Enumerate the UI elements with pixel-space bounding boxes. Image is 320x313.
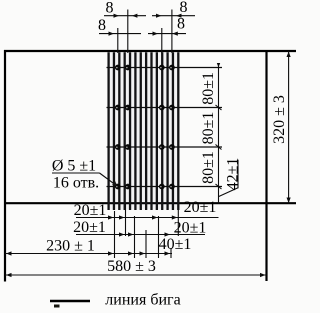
- hole 7 (o5, row 2 col 3): [159, 105, 165, 111]
- 80-chain tick: [216, 145, 222, 150]
- dimension line 80-chain (vertical): [218, 66, 220, 204]
- svg-text:20±1: 20±1: [174, 220, 207, 237]
- row1 arrow b: [119, 215, 125, 219]
- svg-text:80±1: 80±1: [200, 151, 217, 184]
- crease line 11 (linija biga): [161, 52, 163, 210]
- crease line 13 (linija biga): [172, 52, 174, 210]
- dimension line bottom row2: [76, 234, 205, 236]
- 580 arrow right: [260, 273, 266, 277]
- svg-text:16 отв.: 16 отв.: [53, 175, 99, 192]
- dimension 42 leader diagonal: [219, 188, 239, 197]
- crease line 8 (linija biga): [145, 52, 147, 210]
- row2 arrow b: [128, 232, 134, 236]
- svg-text:20±1: 20±1: [73, 219, 106, 236]
- hole row 1 centre line: [107, 67, 223, 69]
- row3 arrow d (40 end): [165, 251, 171, 255]
- dimension 320 arrow top: [287, 52, 291, 58]
- hole 8 (o5, row 2 col 4): [169, 105, 175, 111]
- crease line 9 (linija biga): [150, 52, 152, 210]
- crease line 7 (linija biga): [140, 52, 142, 210]
- row3 arrow c (40): [140, 251, 146, 255]
- hole 3 (o5, row 1 col 3): [159, 65, 165, 71]
- row1 arrow c: [152, 215, 158, 219]
- svg-text:80±1: 80±1: [200, 112, 217, 145]
- bottom extension line g (x=178, strip edge): [177, 210, 179, 236]
- extension line hole column 2 (top, long): [127, 10, 129, 54]
- svg-text:8: 8: [180, 0, 188, 16]
- dimension 8 upper-right arrow a: [156, 14, 162, 18]
- 80-chain tick: [216, 184, 222, 189]
- 80-chain tick: [216, 105, 222, 110]
- svg-text:Ø 5 ±1: Ø 5 ±1: [52, 158, 96, 175]
- crease line 5 (linija biga): [129, 52, 131, 210]
- row1 arrow d: [172, 215, 178, 219]
- extension line hole column 3 (top): [161, 28, 163, 53]
- row2 arrow c: [165, 232, 171, 236]
- hole 13 (o5, row 4 col 1): [115, 184, 121, 190]
- svg-text:8: 8: [98, 17, 106, 34]
- hole 9 (o5, row 3 col 1): [115, 144, 121, 150]
- hole 5 (o5, row 2 col 1): [115, 105, 121, 111]
- hole 12 (o5, row 3 col 4): [169, 144, 175, 150]
- hole callout arrowhead: [112, 181, 117, 187]
- crease line 1 (linija biga): [107, 52, 109, 210]
- bottom extension line a (x=114.5): [114, 211, 116, 258]
- box blank outline - top edge (extended right for 320 dim): [4, 50, 296, 52]
- dimension 8 line (lower right): [148, 33, 186, 35]
- 80-chain tick: [217, 63, 220, 68]
- dimension 8 upper-left arrow a: [114, 14, 120, 18]
- hole callout leader: [100, 173, 117, 186]
- dimension line bottom row3: [5, 253, 172, 255]
- crease line 3 (linija biga): [118, 52, 120, 210]
- crease line 6 (linija biga): [134, 52, 136, 210]
- hole 4 (o5, row 1 col 4): [169, 65, 175, 71]
- hole row 4 centre line: [107, 186, 223, 188]
- row3 arrow b: [128, 251, 134, 255]
- box blank outline - left edge (extended down for 230/580 dims): [4, 50, 6, 282]
- crease line 2 (linija biga): [113, 52, 115, 210]
- svg-text:20±1: 20±1: [74, 202, 107, 219]
- svg-text:линия бига: линия бига: [105, 292, 180, 309]
- dimension 8 lower-right arrow a: [153, 32, 159, 36]
- dimension 8 lower-left arrow: [109, 32, 115, 36]
- svg-text:320 ± 3: 320 ± 3: [271, 95, 288, 144]
- svg-text:580 ± 3: 580 ± 3: [107, 258, 156, 275]
- bottom extension line c (x=134.5): [134, 216, 136, 258]
- bottom extension line f (x=171): [170, 248, 172, 258]
- extension line hole column 1 (top): [117, 28, 119, 53]
- hole 2 (o5, row 1 col 2): [125, 65, 131, 71]
- box blank outline - right edge (extended down): [265, 50, 267, 281]
- hole 15 (o5, row 4 col 3): [159, 184, 165, 190]
- hole callout underline: [52, 172, 100, 174]
- bottom extension line b (x=125.5): [125, 204, 127, 236]
- hole 16 (o5, row 4 col 4): [169, 184, 175, 190]
- hole row 3 centre line: [107, 146, 223, 148]
- hole 6 (o5, row 2 col 2): [125, 105, 131, 111]
- dimension 8 upper-left arrow b: [132, 14, 138, 18]
- svg-text:42±1: 42±1: [225, 158, 242, 191]
- dimension line 580 total: [5, 274, 267, 276]
- hole 14 (o5, row 4 col 2): [125, 184, 131, 190]
- hole 1 (o5, row 1 col 1): [115, 65, 121, 71]
- svg-text:80±1: 80±1: [200, 72, 217, 105]
- dimension 320 line (vertical right): [288, 51, 290, 204]
- row3 arrow left (230): [6, 251, 12, 255]
- dimension 8 lower-right arrow b: [172, 32, 178, 36]
- svg-text:8: 8: [177, 15, 185, 32]
- row3 arrow at a (230 end): [108, 251, 114, 255]
- bottom extension line e (x=158.5): [158, 216, 160, 258]
- hole 11 (o5, row 3 col 3): [159, 144, 165, 150]
- dimension 8 line (lower left): [99, 33, 141, 35]
- hole row 2 centre line: [107, 107, 223, 109]
- legend crease-line sample: [50, 300, 90, 303]
- dimension line bottom row1: [76, 217, 219, 219]
- dimension 8 line (upper left): [104, 15, 146, 17]
- dimension 320 arrow bottom: [287, 198, 291, 204]
- crease line 12 (linija biga): [166, 52, 168, 210]
- box blank outline - bottom edge (extended right): [4, 202, 296, 204]
- hole 10 (o5, row 3 col 2): [125, 144, 131, 150]
- bottom extension line d (x=146): [145, 230, 147, 258]
- svg-text:40±1: 40±1: [159, 236, 192, 253]
- dimension 8 upper-right arrow b: [176, 14, 182, 18]
- crease strip scan smudge: [108, 53, 180, 210]
- crease line 4 (linija biga): [124, 52, 126, 210]
- svg-text:8: 8: [106, 0, 114, 16]
- svg-text:20±1: 20±1: [184, 199, 217, 216]
- row2 arrow a: [119, 232, 125, 236]
- row1 arrow a: [108, 215, 114, 219]
- 580 arrow left: [6, 273, 12, 277]
- scan speck near legend: [54, 305, 60, 308]
- extension line hole column 4 (top, long): [171, 10, 173, 54]
- svg-text:230 ± 1: 230 ± 1: [46, 238, 95, 255]
- dimension 42 leader shelf: [237, 160, 239, 189]
- dimension 8 line (upper right): [152, 15, 195, 17]
- crease line 10 (linija biga): [156, 52, 158, 210]
- crease line 14 (linija biga): [177, 52, 179, 210]
